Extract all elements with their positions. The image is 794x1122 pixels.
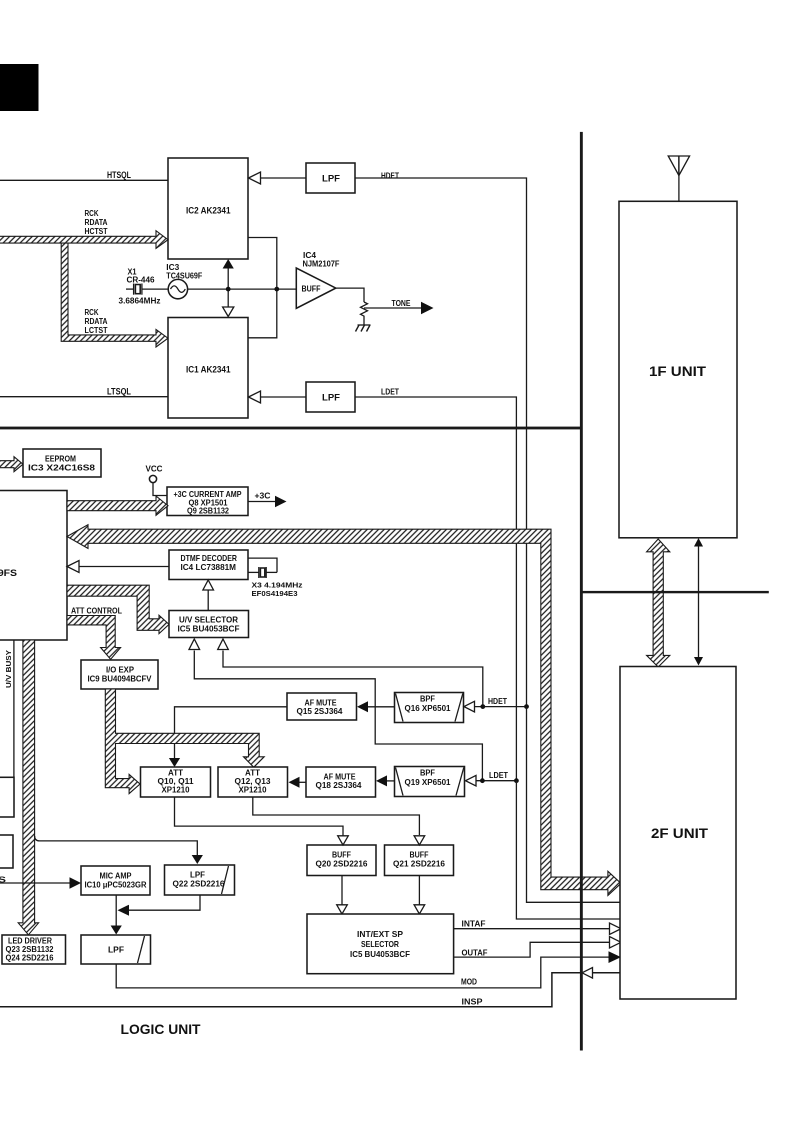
bus RCK/RDATA/LCTST into IC1 — [61, 243, 168, 347]
crystal X3 EF0S4194E3 — [248, 558, 277, 572]
wire BPF Q19 to AF MUTE Q18 (filled arrow) — [385, 780, 395, 782]
wire OUTAF net — [454, 942, 610, 957]
wire HTSQL net — [0, 179, 168, 181]
svg-text:Q19 XP6501: Q19 XP6501 — [405, 778, 452, 787]
svg-text:Q20 2SD2216: Q20 2SD2216 — [316, 860, 369, 869]
node junction dot 1 — [226, 287, 231, 292]
svg-text:HCTST: HCTST — [85, 227, 108, 236]
wire MIC AMP to LPF (filled down arrow) — [115, 895, 117, 926]
ATT Q10,Q11 XP1210 — [141, 767, 211, 797]
svg-text:BPF: BPF — [420, 695, 435, 704]
svg-text:XP1210: XP1210 — [162, 786, 191, 795]
svg-text:MIC AMP: MIC AMP — [100, 872, 133, 881]
oscillator IC3 TC4SU69F — [168, 279, 187, 298]
svg-text:ATT CONTROL: ATT CONTROL — [71, 606, 122, 616]
svg-text:3.6864MHz: 3.6864MHz — [119, 297, 161, 306]
svg-text:INTAF: INTAF — [462, 920, 486, 929]
svg-text:IC2 AK2341: IC2 AK2341 — [186, 206, 231, 216]
IC1 U2 AK2341 — [168, 318, 248, 419]
resistor R (tone) — [361, 302, 368, 325]
LPF block (mod, bottom) — [81, 935, 151, 964]
svg-text:BUFF: BUFF — [332, 851, 351, 860]
svg-text:LPF: LPF — [190, 871, 205, 880]
svg-text:HTSQL: HTSQL — [107, 170, 131, 180]
wire IC2-IC1 link with arrows — [227, 262, 229, 311]
crystal X1 CR-446 — [126, 288, 134, 290]
svg-text:VCC: VCC — [146, 465, 163, 474]
2F UNIT — [620, 667, 736, 1000]
AF MUTE Q15 2SJ364 — [287, 693, 357, 720]
op-amp IC4 NJM2107F buffer — [296, 268, 336, 308]
svg-text:Q22 2SD2216: Q22 2SD2216 — [173, 880, 226, 889]
svg-text:SELECTOR: SELECTOR — [361, 939, 399, 949]
svg-text:OUTAF: OUTAF — [462, 948, 488, 957]
LPF Q22 2SD2216 — [165, 865, 235, 895]
svg-text:IC5 BU4053BCF: IC5 BU4053BCF — [178, 624, 240, 634]
wire BPF Q16 to AF MUTE Q15 (filled arrow) — [366, 706, 395, 708]
svg-text:TC4SU69F: TC4SU69F — [166, 272, 202, 281]
wire HDET vertical into 2F — [527, 707, 622, 903]
bus I/O EXP to ATT blocks — [105, 689, 264, 794]
bus arrow into EEPROM — [0, 457, 23, 472]
wire U/V selector input 2 (to HDET net) — [223, 651, 483, 707]
svg-text:LPF: LPF — [108, 945, 124, 955]
svg-text:HDET: HDET — [488, 697, 507, 706]
svg-text:BPF: BPF — [420, 769, 435, 778]
antenna — [668, 156, 689, 176]
svg-text:IC10 μPC5023GR: IC10 μPC5023GR — [85, 881, 147, 890]
wire right section divider — [581, 591, 769, 593]
I/O EXP IC9 BU4094BCFV — [81, 660, 158, 689]
BPF Q16 XP6501 — [395, 693, 464, 723]
wire CPU to connector box — [13, 640, 15, 777]
bus CPU to +3C amp — [67, 496, 168, 515]
svg-text:TONE: TONE — [392, 299, 412, 308]
wire U/V selector to DTMF with open arrow — [207, 590, 209, 611]
svg-text:Q9 2SB1132: Q9 2SB1132 — [187, 507, 230, 516]
svg-text:IC9 BU4094BCFV: IC9 BU4094BCFV — [88, 674, 152, 684]
svg-text:INT/EXT SP: INT/EXT SP — [357, 929, 403, 939]
svg-text:LOGIC UNIT: LOGIC UNIT — [121, 1021, 201, 1037]
node junction dots on LDET — [480, 778, 485, 783]
svg-text:89FS: 89FS — [0, 568, 17, 578]
AF MUTE Q18 2SJ364 — [306, 767, 376, 797]
LED DRIVER Q23/Q24 — [2, 935, 66, 964]
wire mic input to MIC AMP (filled arrow) — [0, 882, 71, 884]
svg-text:IC4 LC73881M: IC4 LC73881M — [181, 562, 237, 572]
svg-text:CR-446: CR-446 — [127, 275, 156, 284]
heavy separator line — [0, 427, 582, 430]
svg-text:NJM2107F: NJM2107F — [303, 260, 340, 269]
svg-text:Q16 XP6501: Q16 XP6501 — [405, 704, 452, 713]
svg-text:RCK: RCK — [85, 308, 99, 317]
wire U/V selector input 1 (to LDET net) — [194, 651, 482, 781]
node junction dots on HDET — [480, 704, 485, 709]
wire TONE output — [364, 307, 422, 309]
wire HDET from LPF to vertical — [355, 178, 527, 707]
LPF block (LDET, bottom) — [306, 382, 355, 412]
svg-text:LPF: LPF — [322, 174, 341, 184]
wire LPF to IC2 with open arrow — [260, 177, 306, 179]
BUFF Q20 2SD2216 — [307, 845, 376, 876]
wire buffer output — [336, 288, 364, 302]
wire LPF Q22 out to mic line (filled left arrow) — [128, 895, 200, 910]
bus main data bus CPU to 2F UNIT — [67, 525, 621, 896]
svg-text:IC5 BU4053BCF: IC5 BU4053BCF — [350, 949, 410, 959]
wire 1F-2F thin double arrow — [698, 541, 700, 663]
wire ATT Q10 out to BUFF Q20 — [175, 797, 344, 836]
svg-text:+3C: +3C — [255, 492, 271, 501]
U/V SELECTOR IC5 BU4053BCF — [169, 611, 249, 638]
bus RCK/RDATA/HCTST into IC2 — [0, 231, 168, 249]
bus 1F-2F hatched double arrow — [647, 539, 670, 667]
wire AF MUTE Q15 out to ATT Q10 (filled down arrow) — [175, 707, 288, 759]
wire ATT Q12 out to BUFF Q21 — [253, 797, 420, 835]
wire AF MUTE Q18 to ATT Q12 (filled arrow) — [297, 781, 306, 783]
bus CPU to U/V selector — [67, 585, 169, 633]
wire bus tap to LPF Q22 (filled down arrow) — [35, 836, 198, 856]
INT/EXT SP SELECTOR IC5 BU4053BCF — [307, 914, 454, 974]
BPF Q19 XP6501 — [395, 767, 465, 797]
LPF block (HDET, top) — [306, 163, 355, 193]
svg-text:IC1 AK2341: IC1 AK2341 — [186, 365, 231, 375]
CPU IC (HD64...889FS) — [0, 491, 67, 641]
wire INSP net — [0, 973, 621, 1007]
svg-text:U/V BUSY: U/V BUSY — [4, 650, 13, 688]
svg-text:LCTST: LCTST — [85, 326, 108, 335]
wire LPF out (MOD net) — [116, 957, 609, 988]
ground — [358, 324, 371, 326]
bus vertical to LED DRIVER — [18, 640, 38, 935]
svg-text:LDET: LDET — [381, 388, 399, 397]
svg-text:BUFF: BUFF — [302, 283, 321, 293]
svg-text:1F UNIT: 1F UNIT — [649, 363, 706, 379]
svg-text:HDET: HDET — [381, 172, 399, 181]
svg-text:EF0S4194E3: EF0S4194E3 — [252, 589, 298, 598]
wire INTAF net — [454, 928, 610, 930]
wire DTMF to CPU with open arrow — [79, 566, 170, 568]
svg-text:Q21 2SD2216: Q21 2SD2216 — [393, 860, 446, 869]
MIC AMP IC10 uPC5023GR — [81, 866, 150, 895]
svg-text:2F UNIT: 2F UNIT — [651, 825, 708, 841]
wire LTSQL net — [0, 396, 168, 398]
wire oscillator output — [188, 288, 297, 290]
svg-text:LDET: LDET — [489, 771, 508, 780]
main vertical divider — [580, 132, 583, 1051]
wire LDET from LPF to vertical — [355, 397, 516, 781]
node junction dot 2 — [274, 287, 279, 292]
DTMF DECODER IC4 LC73881M — [169, 550, 248, 580]
wire LDET vertical into 2F — [516, 781, 621, 919]
connector box 2 — [0, 835, 13, 868]
wire IC2 right loop to IC1 — [248, 238, 277, 338]
+3C CURRENT AMP Q8/Q9 — [167, 487, 248, 516]
svg-text:Q24 2SD2216: Q24 2SD2216 — [6, 954, 55, 963]
EEPROM IC3 X24C16S8 — [23, 449, 101, 477]
IC2 U1 AK2341 — [168, 158, 248, 259]
svg-text:INSP: INSP — [462, 998, 484, 1007]
wire BUFF Q20 to selector — [341, 876, 343, 905]
svg-text:IC3: IC3 — [166, 263, 180, 272]
svg-text:MOD: MOD — [461, 978, 477, 987]
wire LPF to IC1 with open arrow — [260, 396, 306, 398]
1F UNIT — [619, 201, 737, 538]
wire +3C output — [248, 501, 276, 503]
svg-text:LTSQL: LTSQL — [107, 387, 131, 397]
black index tab — [0, 64, 39, 111]
svg-text:LPF: LPF — [322, 393, 341, 403]
ATT Q12,Q13 XP1210 — [218, 767, 288, 797]
svg-text:RDATA: RDATA — [85, 218, 108, 227]
svg-text:BUFF: BUFF — [410, 851, 429, 860]
connector box 1 — [0, 777, 14, 817]
svg-text:XP1210: XP1210 — [239, 786, 268, 795]
svg-text:RDATA: RDATA — [85, 317, 108, 326]
wire HDET to BPF Q16 (open arrow) — [473, 706, 527, 708]
svg-text:Q15 2SJ364: Q15 2SJ364 — [297, 707, 344, 716]
BUFF Q21 2SD2216 — [385, 845, 454, 876]
svg-text:RCK: RCK — [85, 209, 99, 218]
wire LDET to BPF Q19 (open arrow) — [475, 780, 516, 782]
wire BUFF Q21 to selector — [418, 876, 420, 905]
svg-text:Q18 2SJ364: Q18 2SJ364 — [316, 781, 363, 790]
svg-text:IC3 X24C16S8: IC3 X24C16S8 — [28, 463, 95, 473]
